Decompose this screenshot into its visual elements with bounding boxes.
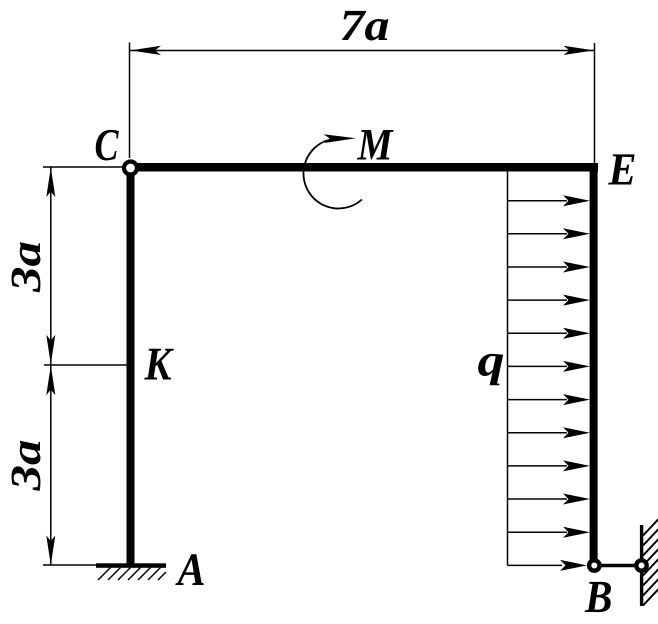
svg-text:C: C: [95, 119, 120, 170]
svg-text:q: q: [478, 335, 505, 386]
svg-text:A: A: [175, 545, 206, 596]
svg-text:B: B: [584, 571, 612, 622]
svg-text:3a: 3a: [3, 241, 50, 293]
svg-text:M: M: [357, 120, 395, 170]
svg-text:3a: 3a: [3, 440, 50, 492]
svg-text:E: E: [608, 144, 637, 195]
svg-text:7a: 7a: [340, 0, 390, 50]
svg-text:K: K: [144, 339, 174, 391]
